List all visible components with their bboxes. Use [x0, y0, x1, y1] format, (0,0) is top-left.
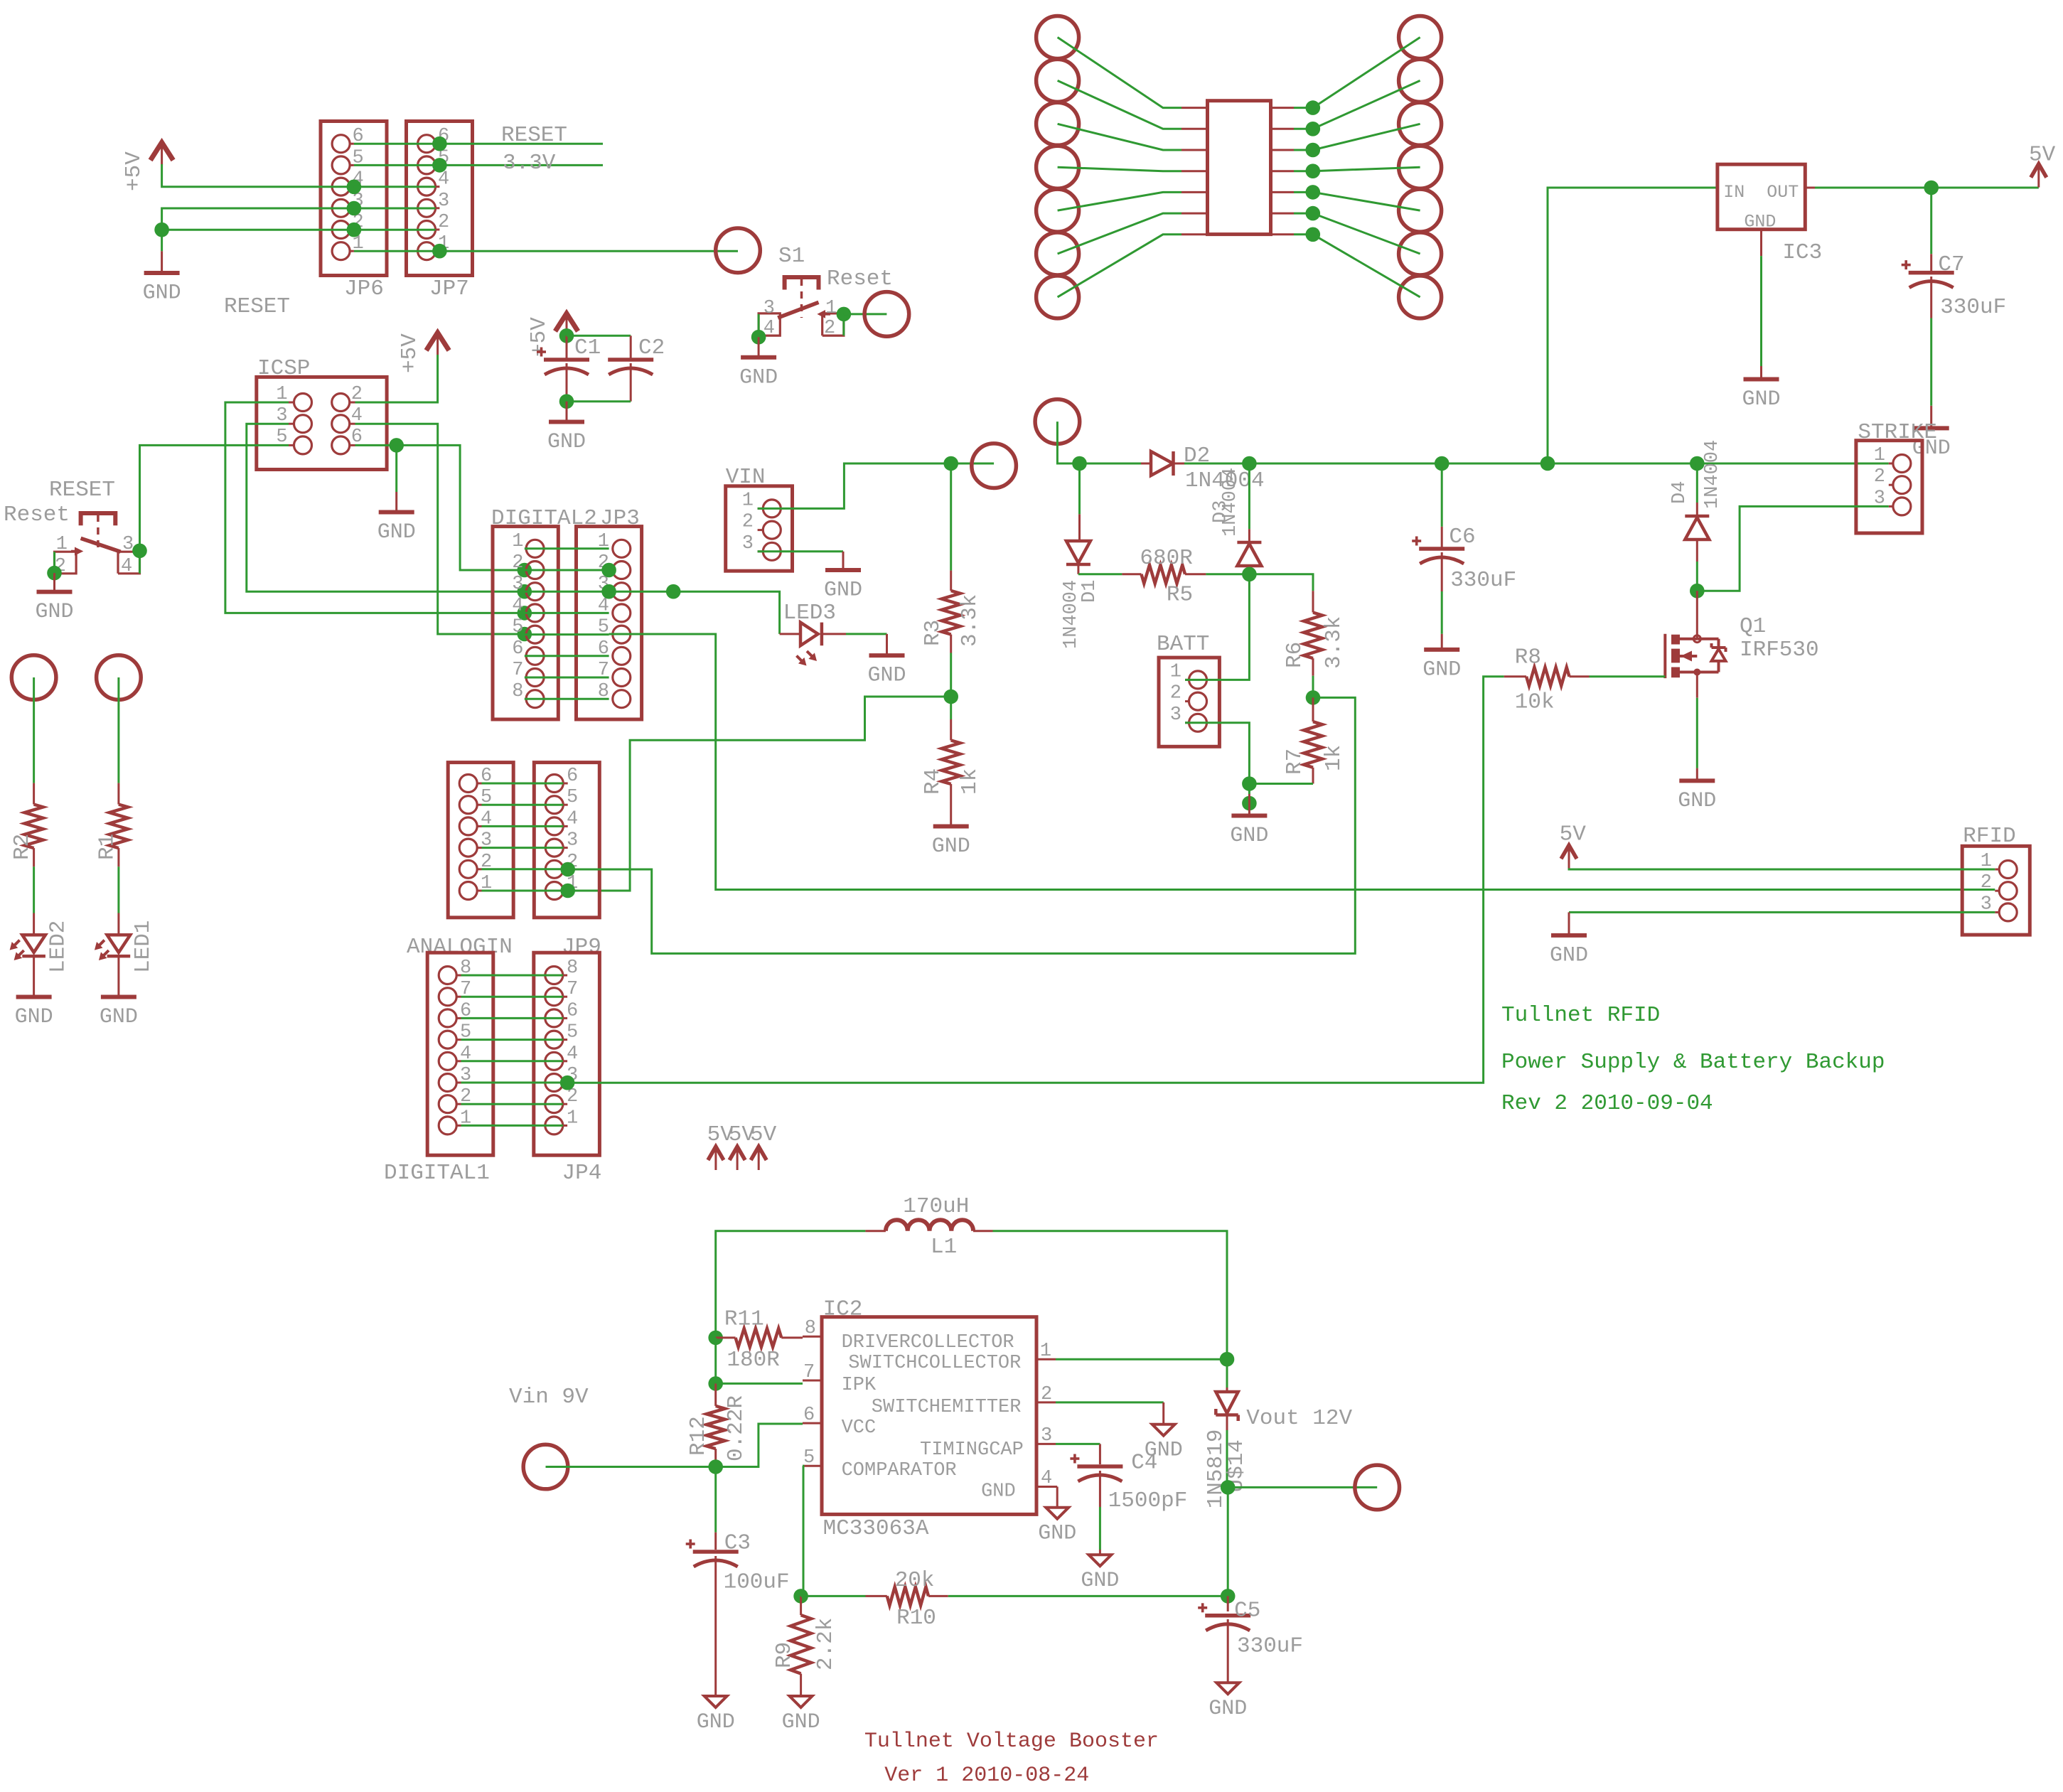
wire DIGITAL2 pin8 to JP3 pin8 [525, 698, 609, 700]
wire rail to R3 [950, 463, 952, 571]
connector JP9 [534, 763, 599, 918]
wire R5 to junction [1206, 573, 1249, 575]
svg-text:GND: GND [782, 1710, 820, 1734]
svg-text:RESET: RESET [49, 478, 115, 503]
wire C2 bottom to C1 bottom [567, 400, 631, 402]
svg-text:5: 5 [512, 617, 523, 638]
svg-text:R11: R11 [724, 1307, 764, 1332]
wire Vin pad to node [546, 1466, 716, 1468]
svg-text:R1: R1 [95, 834, 119, 860]
svg-text:2: 2 [1981, 872, 1992, 894]
svg-text:RESET: RESET [224, 294, 290, 319]
svg-text:5V: 5V [750, 1122, 777, 1147]
wire ANALOGIN pin4 to JP9 pin4 [482, 825, 564, 827]
svg-text:3: 3 [567, 830, 578, 852]
ground GND (IC2 pin2) [1152, 1425, 1175, 1436]
diode D4 [1696, 463, 1698, 503]
junction S1 pin4 [751, 330, 766, 345]
svg-text:Reset: Reset [4, 503, 70, 527]
junction coil right 3 [1306, 143, 1321, 158]
svg-text:4: 4 [567, 808, 578, 830]
svg-text:5: 5 [567, 1022, 578, 1043]
junction VIN rail R3 [943, 456, 958, 471]
junction D2 D3 [1242, 456, 1257, 471]
svg-text:SWITCHCOLLECTOR: SWITCHCOLLECTOR [848, 1353, 1021, 1374]
ground GND (BATT) [1248, 794, 1250, 814]
capacitor C3 [714, 1467, 717, 1533]
wire JP6 pin2 to JP7 pin2 [354, 229, 436, 231]
svg-text:VIN: VIN [726, 465, 766, 490]
svg-text:3: 3 [763, 298, 775, 319]
LED LED3 [780, 633, 800, 635]
svg-text:D1: D1 [1079, 580, 1100, 603]
svg-text:C4: C4 [1131, 1450, 1157, 1475]
wire ICSP GND stub [395, 445, 397, 492]
connector VIN [726, 486, 793, 571]
svg-text:L1: L1 [931, 1235, 957, 1260]
ground GND (ICSP) [395, 492, 397, 510]
svg-text:LED1: LED1 [131, 921, 156, 973]
transistor Q1 [1696, 591, 1698, 639]
junction RESET pin2 [47, 566, 62, 581]
junction JP3 pin3 [601, 584, 616, 599]
svg-text:1500pF: 1500pF [1108, 1488, 1188, 1513]
svg-text:170uH: 170uH [903, 1194, 969, 1219]
svg-text:LED3: LED3 [783, 601, 836, 626]
junction coil right 5 [1306, 185, 1321, 200]
ic coil socket [1208, 101, 1271, 235]
resistor R8 [1504, 675, 1526, 677]
wire R2 to LED2 [33, 867, 35, 913]
power +5V (ICSP) [427, 333, 449, 350]
svg-text:GND: GND [867, 664, 906, 688]
ground GND (VIN) [842, 552, 845, 569]
wire Vout down to C5 [1227, 1487, 1229, 1596]
ground GND (IC3) [1744, 377, 1779, 382]
pad LED2 [11, 655, 56, 700]
svg-text:Tullnet Voltage Booster: Tullnet Voltage Booster [864, 1729, 1159, 1754]
wire IC2 pin4 to GND [1056, 1486, 1057, 1488]
switch RESET lever [81, 538, 121, 552]
svg-text:STRIKE: STRIKE [1858, 420, 1937, 445]
power +5V (JP6) [151, 142, 173, 160]
wire coil right 7 [1271, 233, 1295, 235]
junction D4 rail [1690, 456, 1705, 471]
pad coil right 1 [1399, 16, 1442, 59]
wire ICSP pin6 to GND and DIGITAL2 pin2 [355, 445, 525, 570]
svg-text:IN: IN [1723, 182, 1745, 203]
LED LED1 [117, 913, 119, 934]
pad coil left 3 [1036, 102, 1079, 145]
svg-text:1: 1 [742, 490, 754, 511]
junction JP9 pin2 [560, 862, 575, 877]
svg-text:Reset: Reset [827, 267, 893, 291]
connector ANALOGIN [448, 763, 513, 918]
junction RESET pin3 [132, 544, 147, 559]
junction JP9 pin1 [560, 884, 575, 898]
svg-text:+5V: +5V [122, 151, 146, 191]
wire comparator riser [801, 1466, 803, 1596]
ground GND (LED1) [101, 995, 136, 999]
wire S1 pin1 to pad [844, 313, 887, 315]
svg-text:C6: C6 [1449, 525, 1475, 549]
wire ANALOGIN pin3 to JP9 pin3 [482, 847, 564, 849]
svg-text:1N4004: 1N4004 [1702, 440, 1723, 509]
svg-text:3: 3 [1041, 1425, 1052, 1447]
svg-text:3: 3 [512, 574, 523, 595]
wire R6 to R7 [1312, 676, 1314, 698]
svg-text:D2: D2 [1184, 444, 1210, 468]
diode D3 [1248, 463, 1250, 529]
svg-text:5: 5 [803, 1447, 815, 1469]
pad coil left 4 [1036, 146, 1079, 188]
svg-text:Power Supply & Battery Backup: Power Supply & Battery Backup [1501, 1050, 1885, 1075]
switch RESET actuator [81, 513, 116, 525]
svg-text:ANALOGIN: ANALOGIN [407, 935, 513, 960]
junction C5 [1221, 1589, 1236, 1604]
pad coil right 5 [1399, 189, 1442, 232]
svg-text:S1: S1 [778, 244, 805, 269]
svg-text:GND: GND [1744, 212, 1776, 232]
wire Q1 source to GND [1696, 698, 1698, 768]
junction R12 top [708, 1376, 723, 1391]
svg-text:6: 6 [512, 638, 523, 660]
svg-text:6: 6 [567, 766, 578, 787]
svg-text:Tullnet RFID: Tullnet RFID [1501, 1003, 1660, 1028]
svg-text:10k: 10k [1515, 690, 1555, 714]
ground GND (IC2 pin4) [1046, 1508, 1068, 1519]
svg-text:IC2: IC2 [823, 1297, 863, 1322]
svg-text:2: 2 [1170, 683, 1181, 704]
wire rail D4 to STRIKE pin1 [1697, 463, 1889, 465]
wire R3 to R4 [950, 653, 952, 697]
svg-text:2.2k: 2.2k [813, 1618, 838, 1670]
svg-text:C5: C5 [1234, 1599, 1260, 1624]
junction JP6 pin3 [347, 201, 362, 216]
ground GND (Q1) [1696, 768, 1698, 779]
connector JP6 [321, 122, 387, 276]
svg-text:2: 2 [512, 552, 523, 574]
svg-text:7: 7 [567, 979, 578, 1000]
svg-text:MC33063A: MC33063A [823, 1516, 929, 1541]
wire DIGITAL1 pin7 to JP4 pin7 [461, 996, 563, 998]
svg-text:6: 6 [803, 1405, 815, 1426]
pad reset S1 [864, 292, 909, 337]
svg-text:1: 1 [56, 534, 68, 555]
svg-text:Ver 1 2010-08-24: Ver 1 2010-08-24 [884, 1764, 1089, 1788]
wire ICSP pin1 left-down [225, 402, 525, 613]
ground GND (C7) [1914, 426, 1949, 430]
junction GND riser [154, 222, 169, 237]
svg-text:Q1: Q1 [1740, 614, 1766, 639]
connector JP4 [534, 953, 600, 1155]
wire JP3 pin3 to LED3 [609, 591, 780, 634]
svg-text:3: 3 [1170, 704, 1181, 726]
svg-text:GND: GND [1038, 1522, 1076, 1546]
wire ICSP pin2 to +5V [355, 355, 438, 402]
junction coil right 6 [1306, 206, 1321, 221]
junction JP6 pin4 [347, 179, 362, 194]
svg-text:+5V: +5V [397, 333, 422, 373]
wire booster top loop [716, 1231, 866, 1338]
svg-text:Rev 2 2010-09-04: Rev 2 2010-09-04 [1501, 1091, 1713, 1116]
svg-text:C2: C2 [638, 336, 665, 360]
ground GND (C3) [704, 1696, 727, 1707]
wire ANALOGIN pin6 to JP9 pin6 [482, 783, 564, 785]
pad coil right 3 [1399, 102, 1442, 145]
svg-text:R9: R9 [772, 1642, 797, 1668]
junction coil right 4 [1306, 163, 1321, 178]
wire pad to R1 [117, 677, 119, 783]
ground GND (C6) [1424, 648, 1459, 652]
wire ICSP pin3 left-down [247, 424, 525, 591]
svg-text:GND: GND [100, 1005, 138, 1029]
junction C1 bottom [559, 394, 574, 409]
svg-text:5: 5 [567, 787, 578, 808]
svg-text:3: 3 [438, 191, 449, 212]
svg-text:GND: GND [981, 1481, 1016, 1502]
wire DIGITAL1 pin3 to JP4 pin3 [461, 1082, 563, 1084]
svg-text:IRF530: IRF530 [1740, 638, 1819, 662]
wire L1 to IC2 pin1 [993, 1231, 1228, 1360]
pad coil left 1 [1036, 16, 1079, 59]
diode D1 [1078, 463, 1081, 514]
svg-text:4: 4 [121, 556, 132, 577]
junction Vout [1221, 1480, 1236, 1495]
wire JP3 pin5 net to RFID pin2 [609, 634, 1995, 890]
wire rail C6 to IC3 [1442, 463, 1548, 465]
pad Vin 9V [523, 1444, 568, 1489]
power 5V (IC3 out) [2031, 164, 2047, 178]
svg-text:680R: 680R [1140, 546, 1192, 571]
junction DIGITAL2 pin2 [518, 563, 532, 578]
svg-text:GND: GND [1422, 658, 1461, 682]
junction JP7 pin6 [432, 136, 447, 151]
wire ICSP pin4 right-down [355, 424, 525, 634]
junction JP3 pin2 [601, 563, 616, 578]
resistor R3 [950, 571, 952, 591]
wire C1 to C2 top [567, 335, 631, 337]
wire JP6 pin1 to reset pad [354, 250, 738, 252]
wire IC3 OUT to 5V [1805, 187, 1815, 189]
wire DIGITAL2 pin4 to JP3 pin4 [525, 612, 609, 614]
diode D2 [1141, 463, 1151, 465]
wire IC2 pin3 to C4 [1056, 1443, 1100, 1445]
wire ANALOGIN pin5 to JP9 pin5 [482, 804, 564, 806]
ground GND (LED3) [886, 634, 888, 654]
wire RESET pin2 to GND [53, 552, 55, 573]
pad coil left 2 [1036, 59, 1079, 102]
wire rail D1 to D2 [1080, 463, 1142, 465]
svg-text:DIGITAL1: DIGITAL1 [384, 1161, 490, 1186]
wire DIGITAL1 pin1 to JP4 pin1 [461, 1125, 563, 1127]
svg-text:8: 8 [805, 1318, 816, 1339]
pad coil left 7 [1036, 276, 1079, 318]
svg-text:3.3k: 3.3k [958, 594, 982, 647]
resistor R10 [801, 1595, 866, 1597]
switch S1 contact 1/2 [822, 313, 844, 336]
wire JP9 pin2 to Q1 gate net [568, 697, 1356, 953]
svg-text:Vout 12V: Vout 12V [1246, 1406, 1352, 1431]
wire net 3.3V (JP6/JP7 pin5) [354, 164, 603, 166]
wire Vout to pad [1228, 1486, 1377, 1488]
wire GND to JP6 pin2 [162, 229, 354, 231]
svg-text:3: 3 [122, 534, 134, 555]
svg-text:R3: R3 [921, 620, 945, 646]
pad coil left 5 [1036, 189, 1079, 232]
resistor R11 [716, 1336, 736, 1338]
svg-text:C1: C1 [574, 336, 601, 360]
power +5V (C1) [555, 313, 578, 331]
svg-text:7: 7 [512, 660, 523, 681]
junction JP7 pin5 [432, 158, 447, 173]
junction coil right 1 [1306, 100, 1321, 115]
wire S1 pin1-2 [842, 314, 845, 336]
wire BATT pin1 to D3 node [1185, 574, 1249, 680]
svg-text:COMPARATOR: COMPARATOR [842, 1460, 957, 1481]
ground GND (JP6) [161, 251, 163, 271]
junction JP6 pin2 [347, 222, 362, 237]
svg-text:JP4: JP4 [562, 1161, 602, 1186]
svg-text:6: 6 [567, 1000, 578, 1021]
switch RESET contact 1/2 [55, 552, 77, 574]
svg-text:GND: GND [932, 835, 970, 859]
svg-text:GND: GND [15, 1005, 53, 1029]
junction coil right 7 [1306, 227, 1321, 242]
wire R1 to LED1 [117, 867, 119, 913]
junction JP3 pin3 mid [666, 584, 681, 599]
wire Vin node to VCC [716, 1424, 803, 1467]
svg-text:1: 1 [1040, 1341, 1051, 1362]
wire D3 node to R6 [1249, 574, 1313, 591]
power 5V (RFID) [1561, 845, 1577, 859]
wire pad2 to rail [1057, 422, 1079, 463]
svg-text:1k: 1k [958, 768, 982, 795]
svg-text:4: 4 [567, 1043, 578, 1065]
ground GND (LED2) [16, 995, 52, 999]
svg-text:BATT: BATT [1157, 632, 1209, 657]
wire DIGITAL1 pin5 to JP4 pin5 [461, 1039, 563, 1041]
svg-text:JP3: JP3 [600, 506, 640, 531]
wire coil left 4 [1058, 167, 1181, 171]
junction DIGITAL2 pin4 [518, 606, 532, 621]
svg-text:GND: GND [143, 281, 181, 306]
junction R11 [708, 1331, 723, 1346]
wire coil left 6 [1058, 213, 1181, 254]
wire DIGITAL2 pin7 to JP3 pin7 [525, 677, 609, 679]
ground GND (switch2) [53, 573, 55, 590]
svg-text:D4: D4 [1669, 481, 1690, 504]
svg-text:VCC: VCC [842, 1417, 877, 1439]
wire coil right 2 [1271, 128, 1295, 130]
wire coil left 2 [1058, 80, 1181, 129]
svg-text:C3: C3 [724, 1531, 751, 1556]
svg-text:1N4004: 1N4004 [1061, 580, 1082, 649]
wire RESET pin3-4 [139, 551, 141, 574]
wire R10 to C5 node [948, 1595, 1228, 1597]
switch S1 lever [778, 302, 818, 318]
wire DIGITAL2 pin5 to JP3 pin5 [525, 633, 609, 635]
switch RESET contact 3/4 [118, 552, 140, 574]
wire DIGITAL1 pin2 to JP4 pin2 [461, 1103, 563, 1105]
wire GND to RFID pin3 [1569, 911, 1995, 913]
wire VIN pin1 to rail [758, 463, 995, 508]
svg-text:4: 4 [512, 595, 523, 616]
wire ANALOGIN pin2 to JP9 pin2 [482, 868, 564, 870]
junction Q1 drain [1690, 584, 1705, 599]
wire coil right 3 [1271, 149, 1295, 151]
inductor L1 [865, 1230, 886, 1232]
capacitor C5 [1227, 1596, 1229, 1611]
wire Q1 gate [1590, 675, 1666, 677]
wire GND to JP6 pin3 [162, 208, 354, 251]
connector DIGITAL1 [427, 953, 493, 1155]
svg-text:LED2: LED2 [46, 921, 71, 973]
svg-text:330uF: 330uF [1940, 295, 2006, 320]
pad coil right 2 [1399, 59, 1442, 102]
wire LED3 to GND [846, 633, 887, 635]
wire coil right 6 [1271, 213, 1295, 215]
svg-text:JP7: JP7 [429, 277, 469, 301]
wire ICSP pin5 to reset switch [140, 445, 289, 550]
junction GND batt [1242, 796, 1257, 811]
wire coil left 7 [1058, 235, 1181, 297]
ground GND (R4) [933, 825, 969, 829]
pad coil right 6 [1399, 232, 1442, 275]
wire +5V to JP6 pin4 [162, 164, 354, 187]
wire 5V to RFID pin1 [1569, 868, 1995, 869]
wire pin1 stub [1056, 1358, 1227, 1361]
junction Vin node [708, 1459, 723, 1474]
resistor R2 [33, 783, 35, 805]
svg-text:GND: GND [1678, 789, 1716, 813]
svg-text:JP9: JP9 [562, 935, 601, 960]
svg-text:8: 8 [512, 681, 523, 702]
wire D1 to R5 [1078, 573, 1122, 575]
svg-text:DRIVERCOLLECTOR: DRIVERCOLLECTOR [842, 1332, 1014, 1353]
junction JP4 pin3 [560, 1075, 575, 1090]
junction C6 rail [1435, 456, 1450, 471]
svg-text:2: 2 [824, 318, 835, 339]
wire coil right 1 [1271, 107, 1295, 109]
svg-text:R6: R6 [1282, 642, 1307, 668]
pad Vout [1355, 1465, 1400, 1510]
svg-text:Vin 9V: Vin 9V [509, 1385, 589, 1410]
wire coil left 5 [1058, 192, 1181, 210]
svg-text:ICSP: ICSP [257, 356, 310, 381]
svg-text:330uF: 330uF [1450, 568, 1516, 593]
svg-text:GND: GND [547, 430, 586, 454]
capacitor C7 [1930, 188, 1932, 254]
svg-text:2: 2 [1874, 466, 1885, 488]
svg-text:3: 3 [742, 533, 754, 554]
wire IC2 pin2 to GND [1056, 1401, 1164, 1403]
switch S1 actuator [785, 277, 819, 290]
svg-text:GND: GND [377, 520, 416, 544]
svg-text:20k: 20k [895, 1568, 935, 1593]
wire rail to IC3 IN [1548, 188, 1718, 463]
svg-text:5V: 5V [2029, 143, 2056, 168]
wire coil right 5 [1271, 191, 1295, 193]
pad rail 2 [1035, 399, 1080, 444]
svg-text:330uF: 330uF [1237, 1634, 1303, 1659]
wire rail D3 to C6 [1249, 463, 1442, 465]
ground GND (S1) [758, 337, 760, 355]
svg-text:180R: 180R [727, 1348, 779, 1373]
junction C7 top [1924, 181, 1939, 195]
resistor R5 [1122, 573, 1141, 575]
capacitor C6 [1441, 463, 1443, 527]
